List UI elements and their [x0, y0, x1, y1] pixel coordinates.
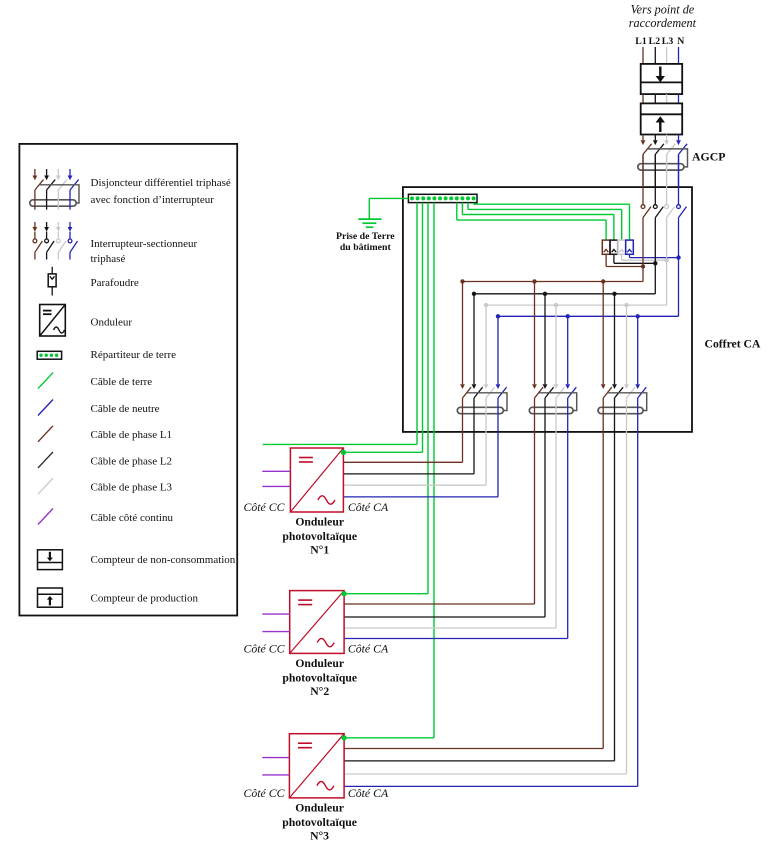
- wire L1 drop to disjoncteur Q2: [462, 282, 464, 385]
- legend symbol: cable L2 swatch: [38, 452, 53, 468]
- wire N drop to disjoncteur Q3: [567, 316, 569, 384]
- Q3 mechanical linkage bar: [539, 393, 577, 411]
- legend symbol: repartiteur de terre: [37, 351, 61, 359]
- svg-text:triphasé: triphasé: [91, 253, 126, 265]
- wire terre to parafoudre #3: [468, 203, 622, 241]
- svg-text:Parafoudre: Parafoudre: [91, 277, 139, 289]
- wire parafoudre F1 output: [606, 254, 643, 266]
- wire terre distribution #2: [343, 203, 422, 453]
- wire L3 between compteurs: [666, 94, 668, 103]
- Q3 pole input contacts: [532, 384, 570, 389]
- text onduleur U1 label: [282, 516, 357, 557]
- wire L3 to onduleur 2: [344, 432, 556, 628]
- compteur de production (second meter): [641, 103, 683, 134]
- repartiteur de terre (terre bar): [408, 194, 477, 202]
- Q4 differential toroid: [598, 407, 643, 413]
- wire bus N: [498, 315, 679, 317]
- svg-text:N°1: N°1: [310, 544, 329, 557]
- node parafoudre F2 junction: [653, 261, 657, 265]
- node bus L3 taps: [484, 303, 629, 307]
- node parafoudre F1 junction: [641, 264, 645, 268]
- wire N to onduleur 3: [344, 432, 638, 787]
- wire L1 to onduleur 2: [344, 432, 534, 604]
- legend symbol: compteur de production: [38, 588, 63, 607]
- legend text: parafoudre: [91, 277, 139, 289]
- svg-text:raccordement: raccordement: [629, 16, 697, 30]
- wire L2 from compteur to AGCP: [654, 135, 656, 141]
- wire L3 sectionneur to bus: [666, 218, 668, 306]
- wire L2 to onduleur 2: [344, 432, 545, 617]
- wire terre to parafoudre #4: [474, 203, 630, 241]
- AGCP pole through-wires: [643, 154, 679, 187]
- wire DC- to onduleur U3: [262, 774, 289, 776]
- svg-text:Câble de terre: Câble de terre: [91, 376, 153, 388]
- wire L3 from raccordement to compteur 1: [666, 47, 668, 64]
- wire L2 sectionneur to bus: [654, 218, 656, 294]
- node bus N taps: [496, 314, 640, 318]
- legend text: compteur de production: [91, 593, 199, 605]
- svg-text:avec fonction d’interrupteur: avec fonction d’interrupteur: [91, 194, 215, 206]
- wire L1 to onduleur 1: [343, 432, 462, 462]
- svg-text:Câble côté continu: Câble côté continu: [91, 512, 174, 524]
- wire L1 drop to disjoncteur Q4: [602, 282, 604, 385]
- wire DC- to onduleur U2: [262, 631, 289, 633]
- parafoudre F3: [618, 240, 626, 254]
- wire L2 drop to disjoncteur Q4: [614, 294, 616, 384]
- svg-text:photovoltaïque: photovoltaïque: [282, 671, 357, 684]
- text cote CC / cote CA U1: [244, 500, 389, 514]
- AGCP differential toroid: [638, 164, 684, 170]
- wire terre to parafoudre #2: [462, 203, 614, 241]
- wire N to onduleur 2: [344, 432, 568, 639]
- svg-text:Côté CA: Côté CA: [348, 786, 389, 800]
- legend symbol: cable L1 swatch: [38, 426, 53, 442]
- wire L3 to onduleur 3: [344, 432, 626, 774]
- legend symbol: cable L3 swatch: [38, 478, 53, 494]
- wire DC- to onduleur U1: [262, 485, 290, 487]
- svg-text:Disjoncteur différentiel triph: Disjoncteur différentiel triphasé: [91, 177, 231, 189]
- svg-text:du bâtiment: du bâtiment: [340, 242, 392, 253]
- node parafoudre F3 junction: [664, 258, 668, 262]
- AGCP mechanical linkage bar: [647, 149, 687, 167]
- interrupteur-sectionneur (coffret): [641, 154, 686, 217]
- svg-text:Câble de neutre: Câble de neutre: [91, 403, 160, 415]
- wire terre to prise de terre: [369, 198, 408, 219]
- text: vers point de raccordement: [629, 2, 697, 29]
- text onduleur U2 label: [282, 657, 357, 698]
- wire DC+ to onduleur U2: [262, 613, 289, 615]
- svg-text:Câble de phase L1: Câble de phase L1: [91, 429, 173, 441]
- text cote CC / cote CA U3: [244, 786, 389, 800]
- svg-text:L1: L1: [635, 36, 647, 47]
- wire L1 sectionneur to bus: [642, 218, 644, 282]
- svg-text:photovoltaïque: photovoltaïque: [282, 530, 357, 543]
- svg-text:N: N: [677, 36, 684, 47]
- legend text: interrupteur-sectionneur: [91, 238, 198, 265]
- legend text: cable L1: [91, 429, 173, 441]
- svg-text:Onduleur: Onduleur: [295, 657, 344, 670]
- node bus L2 taps: [472, 292, 617, 296]
- legend symbol: cable neutre swatch: [38, 400, 53, 416]
- wire terre distribution #3: [343, 203, 428, 594]
- wire L3 to onduleur 1: [343, 432, 486, 485]
- Q2 mechanical linkage bar: [467, 393, 507, 411]
- wire L2 from raccordement to compteur 1: [654, 47, 656, 64]
- onduleur U1: [290, 448, 343, 512]
- Q4 mechanical linkage bar: [608, 393, 647, 411]
- legend text: disjoncteur differentiel: [91, 177, 231, 206]
- svg-text:Côté CA: Côté CA: [348, 641, 389, 655]
- Q4 pole input contacts: [601, 384, 640, 389]
- wire terre to parafoudre #1: [457, 203, 606, 241]
- ground (prise de terre): [358, 219, 381, 227]
- wire terre distribution #4: [343, 203, 434, 738]
- wire N sectionneur to bus: [678, 218, 680, 317]
- Q3 switch levers: [535, 387, 577, 398]
- legend box: [19, 144, 237, 616]
- AGCP switch levers: [643, 144, 687, 155]
- wire L3 drop to disjoncteur Q3: [555, 305, 557, 384]
- wire parafoudre F3 output: [622, 254, 667, 260]
- svg-text:Vers point de: Vers point de: [631, 2, 695, 16]
- svg-text:Onduleur: Onduleur: [91, 316, 133, 328]
- svg-text:Compteur de production: Compteur de production: [91, 593, 199, 605]
- node terre on onduleur U1: [341, 450, 346, 455]
- wire N from raccordement to compteur 1: [678, 47, 680, 64]
- onduleur U2: [290, 591, 344, 654]
- node bus L1 taps: [460, 279, 605, 283]
- compteur de non-consommation (top meter): [641, 64, 683, 94]
- wire parafoudre F4 output: [630, 254, 679, 257]
- svg-text:Interrupteur-sectionneur: Interrupteur-sectionneur: [91, 238, 198, 250]
- Q2 pole input contacts: [460, 384, 500, 389]
- parafoudre F1: [602, 240, 610, 254]
- wire L2 drop to disjoncteur Q2: [473, 294, 475, 384]
- wire DC+ to onduleur U1: [262, 470, 290, 472]
- coffret CA enclosure: [403, 187, 692, 432]
- wire bus L3: [486, 304, 667, 306]
- legend text: cable L3: [91, 482, 173, 494]
- text AGCP: [692, 150, 725, 164]
- legend symbol: parafoudre: [48, 267, 56, 296]
- wire L3 drop to disjoncteur Q2: [485, 305, 487, 384]
- parafoudre F4: [626, 240, 634, 254]
- svg-text:AGCP: AGCP: [692, 150, 725, 164]
- wire L1 drop to disjoncteur Q3: [534, 282, 536, 385]
- wire L1 to onduleur 3: [344, 432, 603, 749]
- svg-text:Compteur de non-consommation: Compteur de non-consommation: [91, 554, 236, 566]
- svg-text:Prise de Terre: Prise de Terre: [336, 231, 395, 242]
- svg-text:L3: L3: [662, 36, 674, 47]
- wire terre distribution #1: [263, 203, 417, 445]
- text onduleur U3 label: [282, 802, 357, 843]
- Q3 differential toroid: [529, 407, 573, 413]
- wire L1 between compteurs: [642, 94, 644, 103]
- legend symbol: onduleur: [40, 305, 66, 337]
- svg-text:Câble de phase L3: Câble de phase L3: [91, 482, 173, 494]
- parafoudre F2: [610, 240, 618, 254]
- wire N from compteur to AGCP: [678, 135, 680, 141]
- wire N drop to disjoncteur Q4: [637, 316, 639, 384]
- svg-text:L2: L2: [649, 36, 661, 47]
- legend text: cable continu: [91, 512, 174, 524]
- wire bus L2: [474, 293, 655, 295]
- svg-text:Côté CC: Côté CC: [244, 786, 285, 800]
- svg-text:Coffret CA: Coffret CA: [705, 338, 761, 351]
- wire DC+ to onduleur U3: [262, 757, 289, 759]
- Q2 switch levers: [463, 387, 507, 398]
- wire N to onduleur 1: [343, 432, 498, 497]
- Q3 pole through-wires: [535, 398, 568, 432]
- wire L2 between compteurs: [654, 94, 656, 103]
- wire N drop to disjoncteur Q2: [497, 316, 499, 384]
- text Coffret CA: [705, 338, 761, 351]
- legend text: cable L2: [91, 455, 173, 467]
- wire L2 drop to disjoncteur Q3: [544, 294, 546, 384]
- legend symbol: disjoncteur differentiel triphase: [30, 169, 79, 210]
- node terre on onduleur U3: [341, 735, 346, 740]
- svg-text:photovoltaïque: photovoltaïque: [282, 816, 357, 829]
- svg-text:Côté CC: Côté CC: [244, 641, 285, 655]
- wire bus L1: [463, 281, 644, 283]
- svg-text:N°2: N°2: [310, 685, 329, 698]
- text cote CC / cote CA U2: [244, 641, 389, 655]
- wire L3 from compteur to AGCP: [666, 135, 668, 141]
- wire L3 drop to disjoncteur Q4: [626, 305, 628, 384]
- node parafoudre F4 junction: [676, 255, 680, 259]
- wire L2 to onduleur 1: [343, 432, 474, 474]
- legend text: repartiteur de terre: [91, 349, 177, 361]
- legend text: compteur de non-consommation: [91, 554, 236, 566]
- svg-text:N°3: N°3: [310, 830, 329, 843]
- legend text: cable terre: [91, 376, 153, 388]
- node labels L1 L2 L3 N: [635, 36, 684, 47]
- wire L2 to onduleur 3: [344, 432, 614, 761]
- wire L1 from raccordement to compteur 1: [642, 47, 644, 64]
- svg-text:Répartiteur de terre: Répartiteur de terre: [91, 349, 177, 361]
- svg-text:Côté CA: Côté CA: [348, 500, 389, 514]
- svg-text:Câble de phase L2: Câble de phase L2: [91, 455, 173, 467]
- legend text: onduleur: [91, 316, 133, 328]
- wire N between compteurs: [678, 94, 680, 103]
- wire L1 from compteur to AGCP: [642, 135, 644, 141]
- onduleur U3: [289, 734, 344, 798]
- text prise de terre du batiment: [336, 231, 395, 253]
- legend text: cable neutre: [91, 403, 160, 415]
- AGCP pole input contacts: [641, 140, 681, 145]
- Q4 pole through-wires: [603, 398, 638, 432]
- legend symbol: compteur de non-consommation: [38, 550, 63, 570]
- legend symbol: cable terre swatch: [38, 373, 53, 389]
- wire parafoudre F2 output: [614, 254, 655, 263]
- legend symbol: interrupteur-sectionneur triphase: [33, 222, 78, 260]
- Q2 pole through-wires: [463, 398, 499, 432]
- svg-text:Onduleur: Onduleur: [295, 516, 344, 529]
- legend symbol: cable continu swatch: [38, 509, 53, 525]
- Q2 differential toroid: [457, 407, 503, 413]
- node terre on onduleur U2: [341, 591, 346, 596]
- Q4 switch levers: [603, 387, 646, 398]
- svg-text:Côté CC: Côté CC: [244, 500, 285, 514]
- svg-text:Onduleur: Onduleur: [295, 802, 344, 815]
